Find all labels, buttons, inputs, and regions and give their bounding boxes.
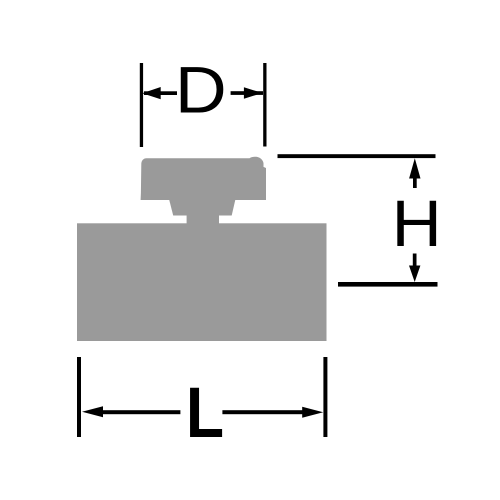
dimension D: right extension line [263, 63, 266, 147]
dimension L: left arrow shaft [100, 410, 180, 414]
dimension L: right extension line [323, 357, 327, 437]
dimension D: left extension line [140, 63, 143, 147]
dimension L: left arrowhead [82, 406, 103, 417]
svg-text:D: D [175, 54, 227, 127]
dimension D: right arrow shaft [231, 91, 263, 95]
dimension H: up arrow shaft [413, 179, 417, 189]
dimension H: up arrowhead [409, 158, 420, 178]
dimension D: right arrowhead [244, 87, 263, 98]
dimension L: right arrow shaft [222, 410, 303, 414]
svg-text:H: H [392, 188, 442, 261]
dimension D: left arrowhead [142, 87, 161, 99]
dimension L: left extension line [77, 357, 81, 437]
dimension H: down arrow shaft [413, 254, 417, 266]
dimension D: left arrow shaft [144, 91, 177, 95]
dimension H: down arrowhead [409, 266, 420, 283]
dimension L: right arrowhead [302, 407, 323, 418]
svg-text:L: L [186, 373, 224, 453]
handle stem trapezoid (gray) [169, 199, 236, 216]
dimension H: top reference line [278, 154, 436, 158]
valve handle knob (gray) [141, 157, 266, 200]
valve body (gray block) [77, 223, 327, 341]
stem neck (gray) [187, 215, 219, 226]
dimension H: bottom reference line [338, 282, 438, 287]
